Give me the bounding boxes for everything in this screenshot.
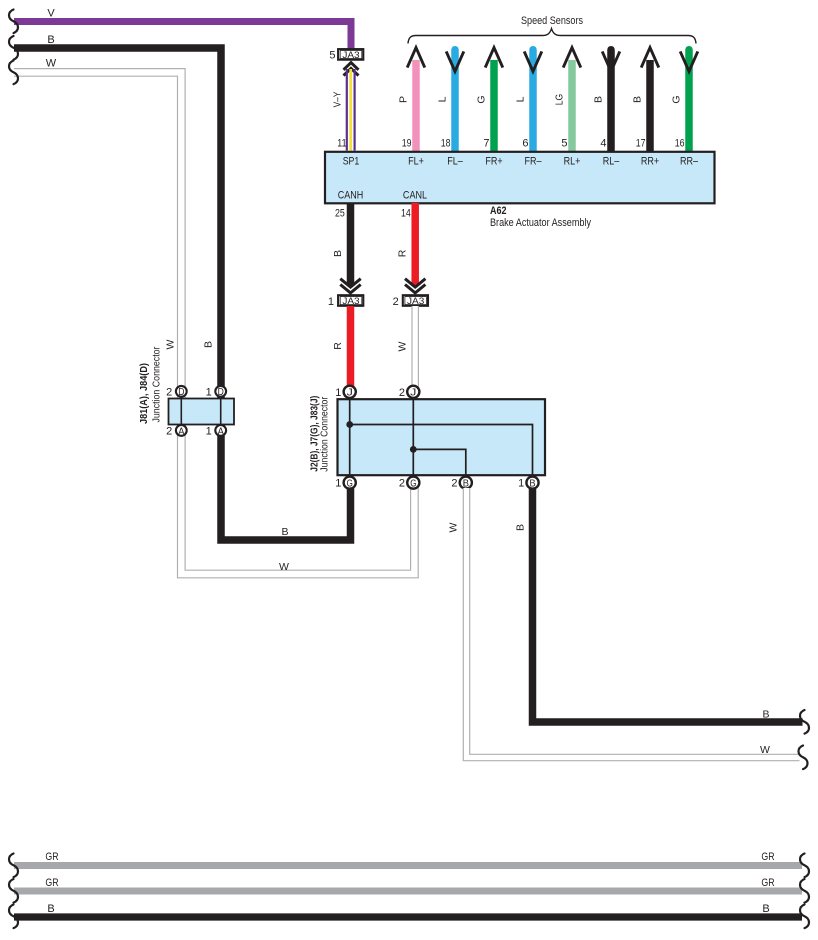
- wire W from B2 down to right break: [467, 488, 800, 758]
- speed sensor wire FL- blue with down chevron, pin 18: [446, 50, 464, 151]
- svg-text:1: 1: [335, 387, 341, 399]
- wire W from JA3-2 to J2 junction J2: [411, 306, 419, 387]
- junction connector J81/J84 box: [169, 399, 235, 425]
- internal link J1-G1: [349, 398, 351, 478]
- break symbol right of wire W: [799, 746, 808, 770]
- svg-text:B: B: [593, 96, 605, 103]
- break symbol left of GR upper: [9, 854, 18, 878]
- svg-text:B: B: [762, 709, 769, 721]
- svg-text:FR+: FR+: [485, 156, 502, 168]
- speed sensor wire RL- black with down chevron, pin 4: [602, 50, 620, 151]
- svg-text:1: 1: [335, 478, 341, 490]
- svg-text:GR: GR: [761, 851, 774, 863]
- svg-text:2: 2: [451, 478, 457, 490]
- svg-text:W: W: [397, 341, 409, 351]
- svg-text:B: B: [515, 524, 527, 531]
- svg-text:JA3: JA3: [342, 296, 359, 307]
- svg-text:A62: A62: [490, 205, 507, 217]
- junction connector J2/J7/J83 box: [338, 399, 546, 475]
- svg-text:B: B: [762, 903, 769, 915]
- svg-text:17: 17: [636, 138, 646, 150]
- svg-text:B: B: [632, 96, 644, 103]
- internal branch to B2: [413, 449, 466, 477]
- speed sensor wire FL+ pink with up chevron, pin 19: [407, 48, 425, 151]
- svg-text:RL–: RL–: [603, 156, 620, 168]
- svg-text:B: B: [332, 250, 344, 257]
- svg-text:P: P: [398, 96, 410, 103]
- connector JA3 pin 1: [338, 295, 363, 307]
- junction dot on J2 line: [410, 446, 417, 453]
- node D2: [176, 386, 187, 398]
- double chevron up below JA3-5: [344, 63, 359, 76]
- svg-text:G: G: [671, 95, 683, 103]
- svg-text:W: W: [448, 522, 460, 532]
- svg-text:J81(A), J84(D): J81(A), J84(D): [139, 363, 150, 424]
- svg-text:W: W: [46, 58, 57, 70]
- wire GR lower: [14, 888, 802, 895]
- connector JA3 pin 5 (top): [338, 49, 363, 61]
- svg-text:16: 16: [675, 138, 685, 150]
- svg-text:FL+: FL+: [408, 156, 424, 168]
- svg-text:2: 2: [399, 478, 405, 490]
- svg-text:11: 11: [337, 138, 346, 150]
- svg-text:7: 7: [483, 138, 489, 150]
- svg-text:B: B: [463, 479, 470, 490]
- break symbol right of GR upper: [800, 854, 809, 878]
- speed sensor wire RR+ black with up chevron, pin 17: [641, 48, 659, 151]
- node A1: [215, 425, 226, 437]
- svg-text:Junction Connector: Junction Connector: [320, 396, 331, 472]
- svg-text:LG: LG: [554, 94, 566, 106]
- svg-text:1: 1: [206, 425, 212, 437]
- connector JA3 pin 2: [403, 295, 428, 307]
- wire B bottom: [14, 913, 802, 920]
- svg-text:CANL: CANL: [403, 189, 427, 201]
- internal branch to B1: [350, 425, 533, 478]
- svg-text:B: B: [203, 341, 215, 348]
- svg-text:G: G: [410, 479, 416, 490]
- break symbol right of wire B: [800, 710, 809, 734]
- break symbol left of GR lower: [9, 879, 18, 903]
- wire R from JA3-1 to J2 junction J1: [347, 306, 355, 387]
- svg-text:R: R: [397, 249, 409, 257]
- svg-text:Speed Sensors: Speed Sensors: [521, 15, 583, 27]
- node B1: [526, 477, 538, 490]
- break symbol right of B bottom: [800, 905, 809, 929]
- svg-text:B: B: [529, 479, 536, 490]
- svg-text:2: 2: [166, 425, 172, 437]
- internal link J2-G2: [412, 398, 414, 478]
- svg-text:RR–: RR–: [680, 156, 699, 168]
- break symbol left of wire W: [9, 61, 18, 85]
- svg-text:J: J: [347, 388, 353, 399]
- svg-text:W: W: [165, 339, 177, 349]
- wire B from B1 down to right break: [533, 488, 803, 722]
- svg-text:1: 1: [206, 386, 212, 398]
- svg-text:L: L: [515, 96, 527, 102]
- svg-text:R: R: [332, 342, 344, 350]
- wire GR upper: [14, 862, 802, 869]
- svg-text:J: J: [410, 388, 416, 399]
- svg-text:D: D: [218, 387, 224, 398]
- node G2: [407, 477, 419, 490]
- speed sensor wire RR- green with down chevron, pin 16: [680, 50, 698, 151]
- break symbol left of wire B: [9, 36, 18, 60]
- speed sensor wire FR+ green with up chevron, pin 7: [485, 48, 503, 151]
- node B2: [460, 477, 472, 490]
- internal link D2-A2: [180, 392, 182, 430]
- svg-text:FR–: FR–: [525, 156, 543, 168]
- node J2: [407, 386, 419, 399]
- node G1: [344, 477, 356, 490]
- svg-text:B: B: [281, 526, 288, 538]
- ECU box A62 brake actuator assembly: [325, 152, 715, 204]
- svg-text:G: G: [476, 95, 488, 103]
- wire B CANH from pin 25 to JA3-1 with double down chevron: [340, 203, 360, 293]
- svg-text:Brake Actuator Assembly: Brake Actuator Assembly: [490, 217, 591, 229]
- svg-text:Junction Connector: Junction Connector: [151, 346, 162, 423]
- junction dot on J1 line: [346, 421, 353, 428]
- svg-text:GR: GR: [45, 851, 58, 863]
- svg-text:D: D: [178, 387, 184, 398]
- svg-text:G: G: [347, 479, 353, 490]
- svg-text:B: B: [47, 34, 54, 46]
- wire R CANL from pin 14 to JA3-2 with double down chevron: [405, 203, 425, 293]
- internal link D1-A1: [220, 392, 222, 430]
- svg-text:19: 19: [402, 138, 412, 150]
- svg-text:JA3: JA3: [342, 50, 359, 61]
- svg-text:2: 2: [393, 296, 399, 308]
- svg-text:W: W: [279, 561, 289, 573]
- svg-text:V–Y: V–Y: [332, 92, 344, 108]
- svg-text:GR: GR: [761, 877, 774, 889]
- speed sensor wire RL+ light green with up chevron, pin 5: [563, 48, 581, 151]
- svg-text:2: 2: [399, 387, 405, 399]
- break symbol left of B bottom: [9, 905, 18, 929]
- svg-text:A: A: [218, 426, 225, 437]
- node A2: [176, 425, 187, 437]
- svg-text:5: 5: [329, 49, 335, 61]
- svg-text:SP1: SP1: [343, 156, 360, 168]
- svg-text:6: 6: [522, 138, 528, 150]
- svg-text:2: 2: [166, 386, 172, 398]
- svg-text:L: L: [437, 96, 449, 102]
- svg-text:4: 4: [600, 138, 606, 150]
- node J1: [344, 386, 356, 399]
- svg-text:25: 25: [335, 207, 345, 219]
- node D1: [215, 386, 226, 398]
- svg-text:A: A: [178, 426, 185, 437]
- svg-text:5: 5: [561, 138, 567, 150]
- svg-text:14: 14: [401, 207, 411, 219]
- svg-text:CANH: CANH: [338, 189, 364, 201]
- svg-text:GR: GR: [45, 877, 58, 889]
- svg-text:W: W: [760, 744, 770, 756]
- break symbol right of GR lower: [800, 879, 809, 903]
- svg-text:1: 1: [518, 478, 524, 490]
- svg-text:RL+: RL+: [564, 156, 581, 168]
- speed sensor wire FR- blue with down chevron, pin 6: [524, 50, 542, 151]
- svg-text:JA3: JA3: [407, 296, 424, 307]
- brace over speed sensors: [408, 29, 696, 44]
- wire W from left break down and to J2 G2: [14, 72, 414, 574]
- svg-text:V: V: [47, 8, 55, 20]
- wire B from left break down to junction connector and to J2 G1: [14, 48, 351, 540]
- svg-text:18: 18: [441, 138, 451, 150]
- svg-text:RR+: RR+: [641, 156, 659, 168]
- break symbol left of wire V: [9, 10, 18, 34]
- wire V-Y striped from JA3-5 to pin 11: [347, 69, 355, 151]
- svg-text:FL–: FL–: [447, 156, 463, 168]
- svg-text:B: B: [47, 903, 54, 915]
- svg-text:1: 1: [328, 296, 334, 308]
- wire V (violet) from left break to JA3 pin 5: [14, 22, 351, 50]
